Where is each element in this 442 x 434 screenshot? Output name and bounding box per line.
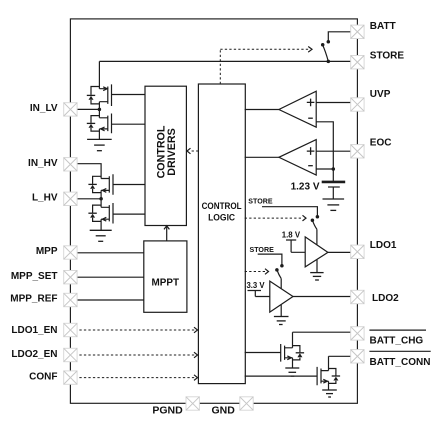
node switch fixed contact (327, 40, 331, 44)
svg-text:UVP: UVP (370, 89, 391, 100)
svg-text:MPP_REF: MPP_REF (10, 293, 57, 304)
block CONTROL DRIVERS (145, 86, 186, 225)
wire EOC comparator output to CONTROL LOGIC (245, 156, 279, 158)
wire CONTROL LOGIC to Q6 gate (245, 375, 317, 377)
svg-text:MPPT: MPPT (152, 278, 180, 289)
node LDO2 switch fixed contact (280, 264, 284, 268)
wire CONTROL LOGIC to Q5 gate (245, 352, 281, 354)
pin BATT_CONN (351, 350, 364, 363)
wire Q5 drain to BATT_CHG pin (293, 331, 356, 333)
svg-text:BATT_CONN: BATT_CONN (370, 357, 431, 368)
svg-text:PGND: PGND (152, 404, 183, 416)
wire dashed arrow CONTROL LOGIC to CONTROL DRIVERS (190, 150, 199, 152)
wire IN_LV pin to FET junction (70, 108, 99, 110)
node S3 arm tip (275, 268, 279, 272)
node S2 arm tip (311, 219, 315, 223)
wire IN_HV pin to Q3 drain (70, 164, 101, 179)
wire dashed CONF to CONTROL LOGIC (70, 377, 194, 379)
svg-text:CONF: CONF (29, 371, 57, 382)
wire MPP_REF input to MPPT (70, 299, 143, 301)
pin MPP_SET (64, 271, 77, 284)
pin L_HV (64, 192, 77, 205)
supply tick 1.8 V source (286, 240, 305, 252)
node IN_LV junction (98, 108, 102, 112)
svg-text:DRIVERS: DRIVERS (166, 128, 178, 176)
wire S3 to LDO2 amp supply (280, 279, 282, 289)
svg-text:1.8 V: 1.8 V (282, 231, 301, 240)
svg-text:LOGIC: LOGIC (208, 212, 235, 222)
svg-text:L_HV: L_HV (32, 193, 58, 204)
ground below LDO1 amp (310, 273, 323, 280)
pin IN_HV (64, 158, 77, 171)
svg-text:STORE: STORE (370, 51, 405, 62)
svg-text:LDO1_EN: LDO1_EN (11, 325, 57, 336)
wire Q6 drain to BATT_CONN pin (329, 355, 356, 357)
node switch arm tip (321, 43, 325, 47)
wire L_HV pin to junction (70, 198, 101, 200)
switch S3 arm (LDO2) (277, 270, 281, 279)
ground below Q5 (285, 368, 299, 376)
pin UVP (351, 98, 364, 111)
supply tick 3.3 V source (248, 291, 270, 297)
op-amp U3 LDO1 regulator (305, 237, 328, 267)
transistor Q6 (BATT_CONN FET) (317, 356, 340, 390)
pin BATT_CHG (351, 327, 364, 340)
wire LDO2 amp to ground (280, 305, 282, 317)
svg-text:EOC: EOC (370, 137, 392, 148)
op-amp U4 LDO2 regulator (270, 281, 293, 312)
wire EOC - input to reference node (316, 168, 333, 170)
wire dashed control line from CONTROL LOGIC to switch S1 (220, 49, 308, 84)
transistor Q5 (BATT_CHG FET) (281, 332, 304, 368)
op-amp U1 UVP comparator (279, 91, 316, 127)
svg-text:IN_LV: IN_LV (30, 103, 58, 114)
ground below 1.23V reference (323, 199, 345, 210)
pin IN_LV (64, 103, 77, 116)
wire LDO2 amp output to LDO2 pin (293, 296, 355, 298)
transistor Q4 (lower HV FET) (88, 203, 145, 230)
transistor Q2 (lower LV FET) (87, 114, 145, 140)
pin LDO2_EN (64, 348, 77, 361)
svg-text:MPP: MPP (36, 246, 58, 257)
svg-text:LDO2_EN: LDO2_EN (11, 349, 57, 360)
op-amp U2 EOC comparator (279, 140, 316, 176)
wire dashed LDO1_EN to CONTROL LOGIC (70, 329, 194, 331)
switch S2 arm (LDO1) (312, 220, 317, 229)
svg-text:MPP_SET: MPP_SET (11, 271, 58, 282)
wire MPP input to MPPT (70, 252, 143, 254)
wire UVP - input to 1.23V reference rail (316, 122, 333, 182)
wire dashed control to S3 (245, 271, 265, 273)
pin STORE (351, 56, 364, 69)
wire arrow MPPT to CONTROL DRIVERS (166, 226, 168, 241)
svg-text:BATT_CHG: BATT_CHG (370, 335, 424, 346)
pin LDO1_EN (64, 323, 77, 336)
ground below Q2 (87, 139, 112, 150)
pin EOC (351, 145, 364, 158)
node L_HV junction (99, 197, 103, 201)
pin MPP (64, 246, 77, 259)
svg-text:BATT: BATT (370, 21, 396, 32)
wire UVP + input to UVP pin (316, 102, 355, 104)
pin LDO2 (351, 290, 364, 303)
block CONTROL LOGIC (198, 84, 245, 384)
wire VSTORE rail from Q1 drain to STORE pin (99, 60, 355, 62)
wire EOC + input to EOC pin (316, 150, 355, 152)
wire MPP_SET input to MPPT (70, 276, 143, 278)
svg-text:GND: GND (212, 404, 236, 416)
svg-text:IN_HV: IN_HV (28, 158, 58, 169)
pin PGND (186, 397, 199, 410)
pin BATT (351, 25, 364, 38)
pin GND (240, 397, 253, 410)
pin MPP_REF (64, 293, 77, 306)
wire UVP comparator output to CONTROL LOGIC (245, 109, 279, 111)
arrowhead dashed to S1 (308, 47, 312, 53)
pin LDO1 (351, 245, 364, 258)
node rail-switch junction (327, 60, 331, 64)
ground below Q6 (322, 390, 337, 397)
svg-text:LDO2: LDO2 (372, 293, 399, 304)
svg-text:STORE: STORE (250, 245, 274, 254)
wire STORE rail to LDO2 switch (258, 254, 282, 265)
wire BATT pin to switch fixed contact (328, 32, 355, 42)
svg-text:STORE: STORE (248, 196, 272, 205)
svg-text:1.23 V: 1.23 V (291, 181, 320, 192)
wire STORE rail to LDO1 switch (262, 207, 317, 217)
svg-text:3.3 V: 3.3 V (246, 281, 265, 290)
node LDO1 switch fixed contact (316, 215, 320, 219)
svg-text:CONTROL: CONTROL (202, 201, 242, 211)
wire S2 to LDO1 amp supply (316, 229, 318, 244)
svg-text:LDO1: LDO1 (370, 240, 397, 251)
ground below LDO2 amp (274, 317, 289, 325)
transistor Q3 (upper HV FET) (88, 174, 145, 207)
node reference junction (332, 167, 336, 171)
transistor Q1 (upper LV FET) (87, 61, 145, 117)
battery V1 1.23 V reference (322, 182, 346, 199)
pin CONF (64, 371, 77, 384)
outer boundary box (70, 19, 357, 403)
switch S1 arm (open, STORE to BATT) (323, 45, 329, 62)
wire LDO1 amp output to LDO1 pin (328, 251, 355, 253)
ground below Q4 (90, 230, 112, 241)
wire LDO1 amp to ground (316, 260, 318, 273)
wire dashed LDO2_EN to CONTROL LOGIC (70, 354, 194, 356)
block MPPT (144, 241, 187, 312)
wire dashed control to S2 (245, 217, 303, 219)
